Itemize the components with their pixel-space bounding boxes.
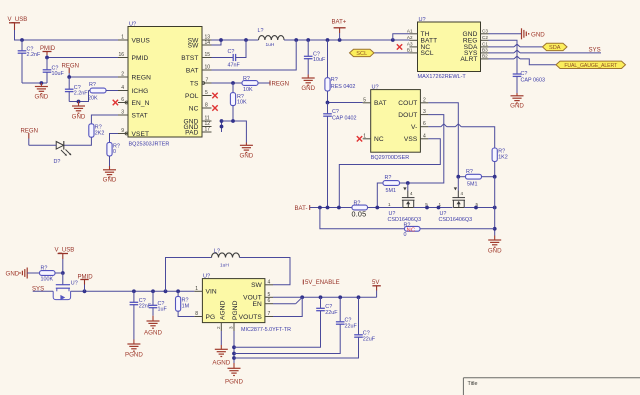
- inductor L2 1uH: [166, 249, 291, 292]
- svg-text:SW: SW: [188, 42, 199, 49]
- ground GND6 sideways: [522, 28, 546, 39]
- svg-text:5: 5: [363, 97, 366, 103]
- wire BAT- bus: [310, 206, 352, 210]
- wire V- to R 1K2: [428, 124, 494, 148]
- wire FET2 to right rail: [464, 206, 496, 210]
- svg-text:GND: GND: [301, 85, 315, 92]
- resistor R9 5M1 second: [456, 169, 496, 187]
- svg-text:D?: D?: [54, 159, 61, 165]
- ground PGND1: [125, 340, 143, 359]
- svg-text:SCL: SCL: [356, 51, 367, 57]
- svg-text:6: 6: [423, 121, 426, 127]
- transistor Q1 CSD16406Q3: [388, 183, 422, 223]
- pin designators U2 right: [482, 28, 488, 58]
- svg-text:5: 5: [268, 292, 271, 298]
- svg-text:EN_N: EN_N: [132, 100, 150, 107]
- svg-text:7: 7: [206, 78, 209, 84]
- wire EN jog: [273, 297, 302, 303]
- pin stubs U1 right: [202, 40, 212, 132]
- port FUAL_GAUGE_ALERT: [556, 61, 626, 69]
- svg-text:STAT: STAT: [132, 112, 148, 119]
- ground GND8: [488, 236, 502, 255]
- svg-text:GND: GND: [488, 248, 502, 255]
- svg-text:R?: R?: [354, 200, 361, 206]
- wire pmos to VIN: [71, 289, 195, 293]
- svg-text:8: 8: [205, 103, 208, 109]
- svg-text:3: 3: [423, 109, 426, 115]
- wire cap bottoms to ground: [22, 81, 47, 85]
- transistor Q3 pass PMOS: [53, 273, 78, 300]
- resistor R13 1M: [176, 291, 195, 316]
- svg-text:NC: NC: [374, 136, 384, 143]
- wire cap to 20K: [69, 91, 88, 104]
- capacitor C7 CAP 0402: [323, 103, 356, 208]
- resistor R2 2K2: [89, 124, 105, 137]
- resistor R5 10K vertical: [230, 83, 247, 121]
- wire STAT to R 2K2: [91, 115, 118, 124]
- op-amp U1 BQ25303JRTER body: [128, 22, 202, 148]
- capacitor C8 22nF: [130, 291, 152, 339]
- svg-text:ALRT: ALRT: [460, 56, 477, 63]
- svg-text:SDA: SDA: [549, 45, 561, 51]
- no connect U3 NC: [357, 136, 362, 141]
- svg-text:COUT: COUT: [398, 100, 417, 107]
- svg-text:CAP 0402: CAP 0402: [332, 116, 356, 122]
- svg-text:5M1: 5M1: [467, 181, 478, 187]
- svg-text:4: 4: [410, 191, 413, 196]
- svg-text:C?: C?: [332, 109, 339, 115]
- power port PMID: [40, 46, 56, 55]
- svg-text:1K2: 1K2: [498, 155, 508, 161]
- LED D1: [54, 141, 72, 165]
- svg-text:2: 2: [423, 97, 426, 103]
- pin names U1 right: [181, 37, 199, 136]
- svg-text:14: 14: [205, 40, 211, 46]
- svg-text:REGN: REGN: [132, 74, 152, 81]
- svg-text:NC: NC: [407, 227, 416, 233]
- resistor R1 20K: [88, 82, 118, 102]
- net label BAT-: [295, 205, 310, 212]
- ground GND2: [72, 102, 86, 121]
- svg-text:VSET: VSET: [132, 131, 150, 138]
- capacitor C12 22uF: [234, 297, 376, 358]
- svg-text:2: 2: [121, 72, 124, 78]
- capacitor C11 22uF: [234, 297, 357, 353]
- wire right rail down: [493, 177, 497, 236]
- net label SYS: [589, 47, 601, 53]
- wire DOUT to FET1 gate: [408, 115, 444, 183]
- svg-text:22uF: 22uF: [345, 323, 358, 329]
- svg-text:0: 0: [113, 149, 116, 155]
- svg-text:4: 4: [121, 85, 124, 91]
- svg-text:5M1: 5M1: [386, 188, 397, 194]
- pin numbers Q1: [388, 191, 428, 207]
- svg-text:10: 10: [205, 65, 211, 71]
- no connect U2 NC: [397, 44, 402, 49]
- svg-text:22uF: 22uF: [325, 310, 338, 316]
- svg-text:0.05: 0.05: [352, 210, 367, 219]
- wire bus to BATT TH: [393, 34, 410, 40]
- capacitor C6 CAP 0603: [513, 71, 545, 93]
- resistor R8 5M1 first: [377, 175, 408, 208]
- pin names U1 left: [132, 37, 152, 138]
- wire SDA: [489, 44, 543, 47]
- svg-text:10K: 10K: [237, 99, 247, 105]
- resistor R11 0 NC: [404, 222, 421, 238]
- svg-text:V_USB: V_USB: [55, 248, 75, 254]
- ground GND4: [301, 75, 315, 93]
- capacitor C1 2.2nF: [18, 40, 41, 83]
- pin names U2 right: [460, 31, 478, 63]
- svg-text:REGN: REGN: [272, 81, 289, 87]
- svg-text:17: 17: [205, 127, 211, 133]
- svg-text:BTST: BTST: [181, 55, 198, 62]
- wire VSET to R 0: [110, 134, 119, 143]
- svg-text:B2: B2: [482, 53, 488, 58]
- svg-text:U?: U?: [419, 17, 426, 23]
- svg-text:BAT+: BAT+: [332, 20, 347, 26]
- port SCL: [350, 49, 375, 57]
- svg-text:5: 5: [205, 90, 208, 96]
- svg-text:GND: GND: [240, 153, 254, 160]
- wire VSS to BAT- bus: [339, 139, 440, 208]
- svg-text:L?: L?: [214, 249, 220, 255]
- svg-text:C3: C3: [482, 28, 488, 33]
- op-amp U4 MIC2877 body: [202, 274, 291, 333]
- svg-text:16: 16: [118, 52, 124, 58]
- svg-text:1M: 1M: [182, 303, 190, 309]
- no connect NC pin8: [212, 105, 217, 110]
- svg-text:20K: 20K: [88, 96, 98, 102]
- wire GND pins: [220, 119, 247, 142]
- svg-text:A2: A2: [407, 35, 413, 40]
- svg-text:4: 4: [461, 191, 464, 196]
- svg-text:VSS: VSS: [404, 136, 418, 143]
- svg-text:100K: 100K: [41, 277, 54, 283]
- pin numbers U4: [195, 279, 270, 329]
- svg-text:2K2: 2K2: [95, 131, 105, 137]
- svg-text:10uF: 10uF: [313, 57, 326, 63]
- ground GND3: [103, 166, 117, 184]
- power port V_USB 2: [55, 248, 75, 260]
- wire LED anode: [29, 144, 56, 146]
- power port V_USB: [8, 17, 28, 30]
- resistor R10 0.05 shunt: [352, 200, 368, 218]
- port SDA: [543, 43, 568, 51]
- svg-text:1uH: 1uH: [220, 262, 229, 268]
- pin numbers U1 left: [118, 35, 124, 135]
- svg-text:A3: A3: [407, 41, 413, 46]
- power port PMID 2: [78, 274, 94, 291]
- no connect EN_N: [113, 100, 118, 105]
- svg-text:R?: R?: [89, 82, 96, 88]
- svg-text:VBUS: VBUS: [132, 37, 151, 44]
- svg-text:ICHG: ICHG: [132, 88, 149, 95]
- svg-text:V_USB: V_USB: [8, 17, 28, 23]
- svg-text:GND: GND: [510, 103, 524, 110]
- svg-text:4: 4: [268, 279, 271, 285]
- wire ALRT: [489, 56, 557, 65]
- svg-text:EN: EN: [253, 301, 262, 308]
- power port BAT+: [332, 20, 347, 41]
- svg-text:C?: C?: [521, 71, 528, 77]
- transistor Q2 CSD16406Q3: [439, 177, 473, 223]
- svg-text:CSD16406Q3: CSD16406Q3: [439, 217, 473, 223]
- ground GND7: [510, 93, 524, 110]
- svg-text:R?: R?: [41, 266, 48, 272]
- svg-text:1: 1: [121, 35, 124, 41]
- svg-text:L?: L?: [258, 28, 264, 34]
- svg-text:PGND: PGND: [232, 300, 239, 320]
- resistor R4 10K horizontal: [242, 76, 270, 93]
- ground AGND2: [212, 345, 230, 367]
- wire battery bus: [284, 38, 409, 42]
- pin stubs U4: [194, 285, 273, 331]
- capacitor C2 10uF: [43, 58, 65, 84]
- pin names U2 left: [421, 31, 438, 57]
- pin stubs U1 left: [118, 40, 128, 135]
- power port 5V: [372, 280, 381, 297]
- svg-text:8: 8: [195, 311, 198, 317]
- capacitor C10 22uF: [234, 297, 338, 347]
- svg-text:GND: GND: [531, 31, 545, 38]
- resistor R7 1K2: [492, 148, 508, 177]
- svg-text:B3: B3: [482, 47, 488, 52]
- node V_USB junction: [20, 38, 24, 42]
- svg-text:POL: POL: [185, 93, 199, 100]
- wire gnd to 100K: [27, 272, 39, 274]
- capacitor C3 2.2nF: [65, 77, 88, 102]
- svg-text:2.2nF: 2.2nF: [74, 91, 88, 97]
- ground GND5: [240, 143, 254, 160]
- svg-text:10K: 10K: [243, 87, 253, 93]
- pin numbers U1 right: [205, 35, 211, 133]
- svg-text:RES 0402: RES 0402: [331, 84, 356, 90]
- svg-text:6: 6: [121, 97, 124, 103]
- svg-text:CAP 0603: CAP 0603: [521, 78, 545, 84]
- svg-text:C2: C2: [482, 35, 488, 40]
- wire VOUTS sense: [273, 297, 302, 316]
- title block: [463, 378, 640, 395]
- net label SYS 2: [32, 287, 53, 293]
- svg-text:BAT: BAT: [186, 67, 199, 74]
- svg-text:A1: A1: [407, 28, 413, 33]
- wire AGND pin: [220, 331, 222, 345]
- svg-text:SCL: SCL: [421, 50, 434, 57]
- svg-text:10uF: 10uF: [52, 71, 65, 77]
- wire SYS: [489, 50, 602, 53]
- svg-text:1: 1: [438, 202, 441, 207]
- wire shunt to FET1: [368, 206, 403, 210]
- svg-text:U?: U?: [203, 274, 210, 280]
- wire REGN to pin2: [67, 73, 118, 79]
- svg-text:DOUT: DOUT: [398, 112, 417, 119]
- svg-text:R?: R?: [385, 175, 392, 181]
- svg-text:AGND: AGND: [144, 329, 162, 336]
- pin designators U2 left: [407, 28, 413, 52]
- svg-text:PG: PG: [206, 314, 216, 321]
- svg-text:V-: V-: [411, 124, 417, 131]
- net label 5V_ENABLE: [303, 280, 339, 287]
- svg-text:GND: GND: [103, 177, 117, 184]
- svg-text:22nF: 22nF: [139, 304, 152, 310]
- svg-text:7: 7: [268, 311, 271, 317]
- capacitor C5 10uF: [304, 40, 326, 75]
- svg-text:9: 9: [121, 128, 124, 134]
- svg-text:VIN: VIN: [206, 289, 217, 296]
- wire 2K2 to LED: [64, 137, 91, 145]
- wire VOUT rail: [273, 295, 377, 299]
- svg-text:47nF: 47nF: [228, 63, 241, 69]
- capacitor C9 1uF: [149, 291, 168, 315]
- svg-text:MAX17262REWL-T: MAX17262REWL-T: [418, 74, 467, 80]
- svg-text:PGND: PGND: [225, 379, 243, 386]
- svg-text:FUAL_GAUGE_ALERT: FUAL_GAUGE_ALERT: [564, 63, 618, 69]
- svg-text:Title: Title: [468, 381, 478, 387]
- net label REGN at LED: [21, 128, 38, 145]
- svg-text:BAT-: BAT-: [295, 206, 308, 212]
- wire U2 GND pin: [489, 33, 522, 35]
- op-amp U2 MAX17262REWL-T body: [418, 17, 481, 80]
- wire VUSB2 down: [61, 259, 65, 275]
- svg-text:1uH: 1uH: [266, 42, 275, 48]
- wire R0 bypass: [320, 208, 495, 229]
- svg-text:PGND: PGND: [125, 351, 143, 358]
- svg-text:R?: R?: [466, 169, 473, 175]
- svg-text:BQ29700DSER: BQ29700DSER: [371, 155, 410, 161]
- ground AGND1: [144, 316, 162, 337]
- svg-text:5V: 5V: [372, 280, 379, 286]
- net label REGN at TS: [270, 81, 289, 88]
- resistor R6 RES 0402: [325, 40, 355, 103]
- op-amp U3 BQ29700DSER body: [371, 85, 421, 161]
- svg-text:1: 1: [363, 133, 366, 139]
- wire R0 to ground: [109, 156, 111, 166]
- svg-text:2.2nF: 2.2nF: [27, 52, 41, 58]
- capacitor C4 47nF bootstrap: [212, 40, 247, 69]
- wire BAT pin to bus: [212, 40, 297, 70]
- svg-text:3: 3: [229, 326, 234, 329]
- ground GND9 sideways: [6, 268, 28, 279]
- svg-text:U?: U?: [71, 281, 78, 287]
- wire COUT to FET2 gate: [428, 103, 458, 177]
- svg-text:22uF: 22uF: [363, 336, 376, 342]
- svg-text:2: 2: [216, 326, 221, 329]
- svg-text:1uF: 1uF: [158, 307, 168, 313]
- svg-text:SYS: SYS: [589, 47, 601, 53]
- svg-text:TS: TS: [190, 80, 199, 87]
- svg-text:REGN: REGN: [62, 63, 79, 69]
- svg-text:BQ25303JRTER: BQ25303JRTER: [129, 142, 170, 148]
- svg-text:AGND: AGND: [212, 360, 230, 367]
- svg-text:AGND: AGND: [219, 300, 226, 320]
- svg-text:4: 4: [423, 133, 426, 139]
- svg-text:SW: SW: [251, 282, 262, 289]
- pin numbers Q2: [438, 191, 478, 207]
- pin numbers U3: [363, 97, 426, 139]
- svg-text:6: 6: [268, 298, 271, 304]
- wire REG to cap: [489, 40, 518, 73]
- pin names U4: [206, 282, 263, 321]
- port SCL wire: [374, 52, 410, 54]
- svg-text:R?: R?: [243, 76, 250, 82]
- power port REGN: [62, 63, 79, 73]
- svg-text:U?: U?: [129, 22, 136, 28]
- pin stubs U2: [410, 34, 489, 59]
- resistor R12 100K: [40, 266, 63, 283]
- svg-text:C?: C?: [228, 49, 235, 55]
- inductor L1 1uH: [258, 28, 285, 48]
- ground PGND2: [225, 363, 243, 386]
- wire V_USB to VBUS: [15, 30, 119, 40]
- svg-text:BAT: BAT: [374, 100, 387, 107]
- svg-text:B1: B1: [407, 47, 413, 52]
- svg-text:15: 15: [205, 52, 211, 58]
- svg-text:MIC2877-5.0YFT-TR: MIC2877-5.0YFT-TR: [241, 327, 291, 333]
- node FET1 gate: [406, 181, 410, 185]
- svg-text:GND: GND: [6, 271, 20, 278]
- svg-text:PAD: PAD: [185, 129, 199, 136]
- svg-text:GND: GND: [72, 114, 86, 121]
- svg-text:R?: R?: [331, 77, 338, 83]
- svg-text:GND: GND: [35, 94, 49, 101]
- resistor R3 0: [107, 142, 120, 156]
- svg-text:5V_ENABLE: 5V_ENABLE: [305, 280, 340, 286]
- wire to BQ29700 BAT pin: [326, 101, 363, 105]
- svg-text:C1: C1: [482, 41, 488, 46]
- ground GND1: [35, 83, 49, 101]
- svg-text:U?: U?: [372, 85, 379, 91]
- wire PMID to pin16: [45, 55, 118, 59]
- wire TS divider: [212, 81, 243, 85]
- svg-text:PMID: PMID: [132, 55, 149, 62]
- svg-text:NC: NC: [189, 105, 199, 112]
- svg-text:VOUTS: VOUTS: [239, 314, 263, 321]
- svg-text:1: 1: [388, 202, 391, 207]
- svg-text:1: 1: [195, 286, 198, 292]
- no connect POL: [212, 93, 217, 98]
- pin stubs U3: [363, 103, 429, 139]
- wire between FETs: [414, 206, 453, 210]
- wire SW node: [212, 38, 259, 45]
- svg-text:3: 3: [121, 110, 124, 116]
- pin names U3: [374, 100, 418, 143]
- wire PGND pin rail: [232, 331, 236, 363]
